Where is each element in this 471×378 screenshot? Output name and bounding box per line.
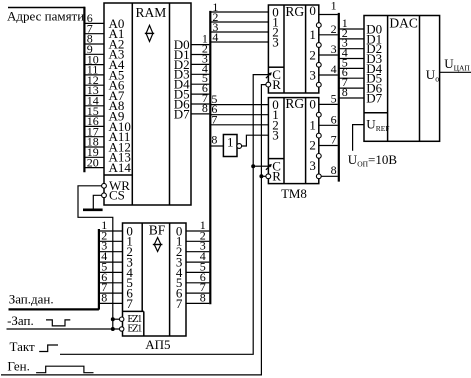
waveform: negative write pulse [46, 320, 70, 326]
wire: address bit to RAM pin 20 (A14) [84, 167, 104, 169]
BF enable section right separator [143, 311, 145, 336]
wire: data bus line 6 to RG2 input 1 [210, 114, 268, 116]
RG2 dynamic input arrow [266, 164, 272, 170]
BF enable section separator [123, 310, 144, 312]
wire: data bus line 3 to RG1 input 2 [210, 31, 268, 33]
wire: reference voltage input to Uref [353, 125, 364, 151]
wire: RG2 output 2 line 7 to DAC bus [319, 145, 338, 147]
wire: address group bus vertical [83, 7, 85, 173]
wire: data bus line 7 to RG2 input 2 [210, 124, 268, 126]
svg-text:АП5: АП5 [145, 337, 170, 352]
wire: bus line 4 to DAC input D3 [339, 58, 364, 60]
wire: address bit to RAM pin 13 (A7) [84, 95, 104, 97]
wire: address bit to RAM pin 12 (A6) [84, 84, 104, 86]
wire: RG1 output 0 line 1 to DAC bus [319, 14, 338, 16]
svg-text:2: 2 [309, 138, 316, 153]
wire: input group bus vertical for Зап.дан. [98, 229, 100, 310]
wire: RAM data output D7 pin 8 to data bus [191, 113, 209, 115]
buffer BF АП5 block outline [123, 223, 187, 336]
svg-text:2: 2 [309, 47, 316, 62]
wire: write strobe line to EZ and WR [7, 328, 120, 330]
wire: address input line [8, 7, 85, 9]
BF EZ1 lower inversion bubble [120, 327, 124, 331]
RG1 inverted output 3 bubble [316, 82, 321, 87]
wire: data bus line 4 to RG1 input 3 [210, 41, 268, 43]
wire: DAC group bus vertical [338, 13, 340, 182]
wire: bus line 3 to DAC input D2 [339, 48, 364, 50]
wire: BF output 0 pin 1 to data bus [186, 230, 209, 232]
svg-text:Такт: Такт [10, 339, 36, 354]
svg-text:8: 8 [101, 290, 107, 304]
DAC U2 block outline [364, 16, 440, 142]
wire: RG2 output 1 line 6 to DAC bus [319, 124, 338, 126]
wire: write data bit 7 to BF input 6 [99, 292, 123, 294]
wire: bus line 7 to DAC input D6 [339, 87, 364, 89]
svg-text:0: 0 [309, 3, 316, 18]
wire: bus line 1 to DAC input D0 [339, 28, 364, 30]
svg-text:ЕZ1: ЕZ1 [127, 323, 142, 334]
BF input column separator [141, 223, 143, 311]
svg-text:DAC: DAC [389, 16, 418, 31]
svg-text:D7: D7 [174, 106, 190, 121]
svg-text:UЦАП: UЦАП [444, 56, 470, 73]
BF EZ1 upper inversion bubble [120, 317, 124, 321]
svg-text:UREF: UREF [366, 117, 389, 134]
wire: bus line 5 to DAC input D4 [339, 67, 364, 69]
wire: address bit to RAM pin 7 (A1) [84, 33, 104, 35]
wire: RG2 inverted output 3 line 8 to DAC bus [319, 175, 338, 177]
wire: write data bit 6 to BF input 5 [99, 282, 123, 284]
svg-text:8: 8 [211, 132, 217, 146]
svg-text:RAM: RAM [136, 5, 167, 20]
svg-text:6: 6 [331, 112, 337, 126]
svg-text:RG: RG [285, 4, 304, 19]
wire: data bus line 2 to RG1 input 1 [210, 21, 268, 23]
wire: address bit to RAM pin 11 (A5) [84, 74, 104, 76]
inverter D1 block [223, 135, 237, 157]
wire: Ген generator vertical line to R inputs [1, 85, 268, 375]
RG2 output column separator [305, 98, 307, 184]
wire: inverter output to RG2 input 3 [242, 135, 269, 146]
svg-text:0: 0 [309, 97, 316, 112]
svg-text:D7: D7 [366, 90, 382, 105]
svg-text:8: 8 [202, 101, 208, 115]
svg-text:3: 3 [309, 158, 316, 173]
RG1 R input inversion bubble [266, 82, 271, 87]
RG1 input column separator [283, 5, 285, 93]
RG2 input column separator [283, 98, 285, 184]
wire: address bit to RAM pin 10 (A4) [84, 64, 104, 66]
RAM bidirectional diamond symbol [145, 25, 154, 41]
RAM CS inversion bubble [102, 193, 107, 198]
register RG2 block outline [268, 98, 318, 184]
wire: RAM data output D3 pin 4 to data bus [191, 73, 209, 75]
wire: RG1 output 3 line 4 to DAC bus [319, 74, 338, 76]
wire: write data bit 3 to BF input 2 [99, 251, 123, 253]
BF output column separator [169, 223, 171, 336]
wire: BF output 6 pin 7 to data bus [186, 292, 209, 294]
svg-text:BF: BF [149, 222, 166, 237]
RAM input column separator [131, 3, 133, 205]
waveform: generator pulse [36, 366, 93, 373]
ground symbol [83, 209, 103, 212]
wire: address bit to RAM pin 8 (A2) [84, 43, 104, 45]
wire: bus line 6 to DAC input D5 [339, 77, 364, 79]
wire: BF output 1 pin 2 to data bus [186, 240, 209, 242]
wire: BF output 7 pin 8 to data bus [186, 302, 209, 304]
svg-text:Ген.: Ген. [7, 359, 30, 374]
wire: address bit to RAM pin 19 (A13) [84, 156, 104, 158]
RAM U1 block outline [104, 3, 191, 205]
svg-text:R: R [272, 77, 281, 92]
wire: WR control from -Зап line [78, 186, 113, 329]
svg-text:7: 7 [331, 133, 337, 147]
wire: address bit to RAM pin 17 (A11) [84, 136, 104, 138]
wire: enable branch to EZ1 upper [113, 318, 120, 320]
svg-text:ТМ8: ТМ8 [281, 186, 307, 201]
svg-text:3: 3 [309, 67, 316, 82]
RG2 control section separator [268, 158, 284, 160]
svg-text:Зап.дан.: Зап.дан. [9, 291, 54, 306]
wire: Такт clock vertical line to C inputs [60, 75, 268, 355]
wire: data bus line 5 to RG2 input 0 [210, 104, 268, 106]
RG1 inverted output 1 bubble [316, 43, 321, 48]
wire: generator branch to RG2 R input [261, 175, 268, 177]
junction: WR line to EZ1 lower [111, 327, 115, 331]
svg-text:A14: A14 [109, 160, 132, 175]
RG2 inverted output 3 bubble [316, 174, 321, 179]
wire: BF output 5 pin 6 to data bus [186, 282, 209, 284]
wire: write data bit 5 to BF input 4 [99, 271, 123, 273]
svg-text:1: 1 [309, 118, 316, 133]
wire: BF output 4 pin 5 to data bus [186, 271, 209, 273]
wire: write data group line [9, 308, 99, 310]
RAM control section separator [104, 174, 132, 176]
svg-text:R: R [272, 169, 281, 184]
wire: bus line 2 to DAC input D1 [339, 38, 364, 40]
RAM WR inversion bubble [102, 183, 107, 188]
wire: RG2 output 0 line 5 to DAC bus [319, 103, 338, 105]
register RG1 block outline [268, 5, 318, 93]
svg-text:RG: RG [285, 96, 304, 111]
wire: data group bus D0-D7 vertical [209, 11, 211, 304]
wire: RAM data output D1 pin 2 to data bus [191, 54, 209, 56]
svg-text:1: 1 [309, 27, 316, 42]
svg-text:8: 8 [331, 163, 337, 177]
RG1 inverted output 0 bubble [316, 23, 321, 28]
wire: BF output 2 pin 3 to data bus [186, 251, 209, 253]
inverter D1 output bubble [237, 144, 242, 149]
wire: CS to ground [93, 195, 104, 208]
svg-text:8: 8 [342, 85, 348, 99]
RG2 R input inversion bubble [266, 174, 271, 179]
wire: address bit to RAM pin 18 (A12) [84, 146, 104, 148]
RG1 control section separator [268, 66, 284, 68]
svg-text:Uо: Uо [426, 67, 439, 84]
svg-text:4: 4 [212, 30, 218, 44]
svg-text:7: 7 [211, 112, 217, 126]
wire: bus line 8 to DAC input D7 [339, 97, 364, 99]
BF bidirectional diamond symbol [153, 238, 163, 252]
wire: RAM data output D4 pin 5 to data bus [191, 83, 209, 85]
wire: DAC analog output [440, 71, 471, 73]
svg-text:4: 4 [331, 62, 337, 76]
RG2 inverted output 2 bubble [316, 154, 321, 159]
RG1 inverted output 2 bubble [316, 62, 321, 67]
wire: write data bit 1 to BF input 0 [99, 230, 123, 232]
svg-text:5: 5 [331, 91, 337, 105]
RG2 inverted output 0 bubble [316, 112, 321, 117]
wire: write data bit 8 to BF input 7 [99, 302, 123, 304]
wire: clock branch to RG2 C input [253, 165, 268, 167]
svg-text:7: 7 [126, 296, 133, 311]
RG1 output column separator [305, 5, 307, 93]
RG1 dynamic input arrow [266, 72, 272, 78]
wire: address bit to RAM pin 6 (A0) [84, 22, 104, 24]
svg-text:7: 7 [176, 296, 183, 311]
wire: RG1 output 2 line 3 to DAC bus [319, 54, 338, 56]
wire: data bus line 1 to RG1 input 0 [210, 11, 268, 13]
wire: address bit to RAM pin 14 (A8) [84, 105, 104, 107]
wire: RAM data output D6 pin 7 to data bus [191, 103, 209, 105]
wire: BF output 3 pin 4 to data bus [186, 261, 209, 263]
DAC reference section separator [364, 112, 388, 114]
DAC input column separator [387, 16, 389, 142]
svg-text:Адрес памяти: Адрес памяти [7, 9, 84, 24]
svg-text:20: 20 [87, 155, 99, 169]
svg-text:3: 3 [331, 42, 337, 56]
waveform: clock edge [39, 345, 58, 352]
wire: RAM data output D0 pin 1 to data bus [191, 44, 209, 46]
wire: address bit to RAM pin 15 (A9) [84, 115, 104, 117]
wire: RAM data output D5 pin 6 to data bus [191, 93, 209, 95]
svg-text:1: 1 [227, 134, 234, 149]
junction: generator to RG2 R [259, 174, 263, 178]
wire: write data bit 2 to BF input 1 [99, 240, 123, 242]
svg-text:1: 1 [331, 0, 337, 13]
RAM output column separator [169, 3, 171, 205]
svg-text:3: 3 [272, 35, 279, 50]
wire: RG1 output 1 line 2 to DAC bus [319, 34, 338, 36]
svg-text:-Зап.: -Зап. [7, 313, 34, 328]
wire: address bit to RAM pin 16 (A10) [84, 125, 104, 127]
svg-text:8: 8 [200, 290, 206, 304]
inverter D1 input wire line 8 from data bus [210, 145, 223, 147]
svg-text:UОП=10В: UОП=10В [348, 152, 398, 169]
wire: write data bit 4 to BF input 3 [99, 261, 123, 263]
svg-text:CS: CS [109, 188, 125, 203]
wire: address bit to RAM pin 9 (A3) [84, 53, 104, 55]
DAC output column separator [419, 16, 421, 142]
junction: clock to RG2 C [251, 164, 255, 168]
wire: RAM data output D2 pin 3 to data bus [191, 63, 209, 65]
RG2 inverted output 1 bubble [316, 133, 321, 138]
junction: WR line to EZ1 upper [111, 317, 115, 321]
svg-text:2: 2 [331, 22, 337, 36]
svg-text:3: 3 [272, 128, 279, 143]
